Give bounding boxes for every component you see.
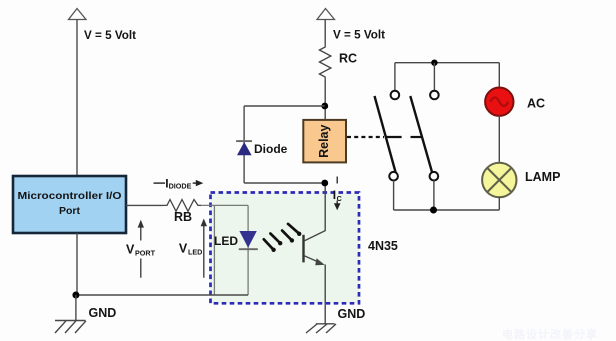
svg-text:LED: LED (188, 248, 202, 257)
node: bottom junction (430, 207, 437, 214)
wire: right V+ rail to RC (324, 20, 326, 45)
wire: AC loop bottom (394, 209, 500, 211)
optocoupler 4N35 dashed box (211, 193, 360, 304)
resistor RB (163, 200, 201, 225)
svg-text:GND: GND (338, 307, 366, 321)
node: GND junction (72, 292, 79, 299)
wire: AC to LAMP (498, 116, 500, 164)
svg-text:Port: Port (59, 205, 81, 217)
switch 2 bottom contact (430, 172, 439, 181)
wire: inner rectangle left side (213, 205, 215, 295)
node: relay bottom junction (321, 180, 328, 187)
svg-text:V: V (126, 243, 135, 257)
ground symbol left (55, 321, 86, 334)
wire: inner rectangle right side (LED branch) (247, 205, 249, 295)
node: relay top junction (321, 103, 328, 110)
supply arrow V+ right (317, 9, 385, 42)
blade tick 1 (386, 136, 402, 138)
wire: AC loop top (395, 62, 499, 64)
measurement arrow V_LED (179, 219, 207, 278)
LED D (emitter diode) (214, 231, 258, 249)
switch 1 bottom contact (389, 172, 398, 181)
svg-text:电路设计改善分享: 电路设计改善分享 (502, 327, 598, 341)
switch 1 top contact (391, 91, 400, 100)
wire: emitter down to ground (324, 265, 326, 324)
wire: diode loop bottom (244, 182, 325, 184)
Microcontroller I/O Port box (13, 176, 126, 233)
wire: RB to LED loop (top side of inner rectangle) (201, 204, 248, 206)
wire: down to ground symbol (75, 295, 77, 321)
svg-text:Microcontroller I/O: Microcontroller I/O (18, 190, 122, 202)
wire: ground rail from GND junction to LED loop bottom (76, 294, 248, 296)
LAMP (482, 163, 560, 197)
supply arrow V+ left (69, 9, 137, 43)
switch 2 top contact (430, 91, 439, 100)
current label I_C (333, 177, 342, 211)
blade tick 2 (411, 136, 424, 138)
svg-text:Relay: Relay (317, 124, 331, 157)
measurement arrow V_PORT (126, 220, 156, 278)
node: top junction (431, 60, 437, 66)
AC source (485, 88, 545, 116)
svg-text:DIODE: DIODE (169, 182, 192, 191)
svg-text:LED: LED (214, 234, 238, 248)
svg-text:Diode: Diode (254, 142, 288, 156)
wire: stub to switch 1 top contact (394, 63, 396, 91)
wire: stub from switch 1 bottom to bottom rail (393, 181, 395, 211)
wire: collector up to relay junction (324, 183, 326, 231)
svg-text:RC: RC (339, 52, 357, 66)
ground symbol right (306, 324, 336, 333)
svg-text:LAMP: LAMP (525, 170, 560, 184)
wire: diode loop top (244, 105, 325, 107)
wire: stub to switch 2 top contact (433, 63, 435, 91)
wire: MCU bottom to GND (76, 233, 78, 295)
wire: top rail down to AC source (498, 63, 500, 88)
svg-text:V = 5 Volt: V = 5 Volt (333, 30, 385, 42)
switch 1 blade (375, 96, 396, 172)
svg-text:4N35: 4N35 (368, 239, 398, 253)
svg-text:RB: RB (174, 210, 192, 224)
resistor RC (319, 44, 357, 80)
wire: stub from switch 2 bottom to bottom rail (433, 181, 435, 211)
light arrows (photon emission) (264, 224, 299, 249)
diode D (flyback) (236, 141, 288, 156)
current label I_DIODE with arrow (154, 176, 204, 190)
relay K1 (303, 120, 346, 162)
wire: RC to relay top junction (324, 80, 326, 120)
wire: diode loop left (243, 106, 245, 183)
svg-text:V: V (179, 242, 188, 256)
phototransistor Q (304, 231, 326, 266)
dashed linkage from relay to switch blades (347, 136, 384, 138)
svg-text:V = 5 Volt: V = 5 Volt (84, 30, 136, 42)
wire: left V+ rail down to MCU box (76, 20, 78, 177)
svg-text:PORT: PORT (135, 249, 156, 258)
switch 2 blade (410, 96, 432, 172)
svg-text:AC: AC (527, 97, 545, 111)
svg-text:GND: GND (89, 306, 117, 320)
wire: LAMP to bottom rail (498, 197, 500, 210)
wire: MCU output to RB (126, 204, 163, 206)
